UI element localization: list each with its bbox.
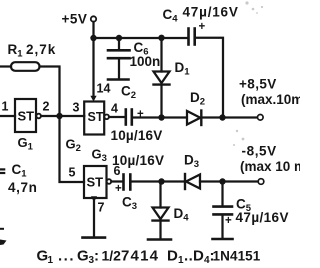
diode D2: [187, 111, 200, 125]
scan speckles: [233, 1, 263, 146]
svg-text:5: 5: [69, 166, 76, 180]
capacitor C5: [221, 182, 223, 206]
svg-text:14: 14: [97, 82, 111, 96]
svg-text:+8,5V: +8,5V: [239, 77, 277, 92]
svg-text:4,7n: 4,7n: [8, 180, 37, 195]
schmitt inverter G1: [15, 99, 36, 132]
schmitt inverter G2: [84, 102, 104, 135]
svg-text:R12,7k: R12,7k: [8, 42, 57, 60]
svg-text:+: +: [137, 109, 144, 121]
smudge bottom-left corner: [0, 240, 7, 246]
node junction G1 out: [56, 113, 62, 119]
node B junction: [158, 178, 164, 184]
schmitt inverter G3: [84, 166, 107, 198]
wire +5V rail: [94, 37, 189, 39]
wire G1 output to G2 input: [41, 115, 84, 117]
wire R1 left lead: [0, 65, 11, 67]
G2 output bubble: [104, 115, 109, 120]
svg-text:100n: 100n: [130, 54, 161, 69]
svg-text:4: 4: [111, 102, 118, 116]
svg-text:47µ/16V: 47µ/16V: [236, 210, 289, 225]
svg-text:7: 7: [98, 201, 105, 215]
node D1 top tap: [158, 35, 164, 41]
svg-text:+: +: [199, 21, 206, 33]
ground C5: [213, 238, 233, 241]
diode D1: [160, 38, 162, 72]
-8.5V output terminal: [258, 179, 264, 185]
svg-text:+: +: [115, 183, 122, 195]
G1 output bubble: [36, 114, 41, 119]
pin 7 arrowhead: [91, 196, 97, 202]
wire D2 to +8.5V node: [201, 116, 222, 118]
svg-text:ST: ST: [87, 175, 104, 190]
pin 7 wire to ground: [93, 198, 95, 237]
capacitor C3: [122, 175, 125, 190]
diode D4: [159, 182, 161, 208]
capacitor C2: [125, 110, 128, 125]
node -8.5V junction: [219, 178, 225, 184]
node +8.5V junction: [219, 114, 225, 120]
svg-text:+: +: [225, 215, 232, 227]
wire to -8.5V terminal: [223, 180, 259, 182]
svg-text:(max.10m: (max.10m: [241, 92, 300, 107]
svg-text:3: 3: [73, 101, 80, 115]
svg-text:1: 1: [2, 100, 9, 114]
resistor R1: [11, 62, 40, 71]
node A junction: [158, 114, 164, 120]
wire to +8.5V terminal: [223, 116, 257, 118]
svg-text:ST: ST: [18, 109, 35, 124]
svg-text:ST: ST: [88, 110, 104, 124]
ground C6: [108, 78, 129, 81]
capacitor C1 (cut off at edge): [0, 168, 4, 170]
svg-text:47µ/16V: 47µ/16V: [183, 5, 239, 20]
capacitor C4: [187, 29, 190, 45]
G3 output bubble: [107, 179, 112, 184]
wire G2 output to C2: [109, 116, 125, 118]
node C6 tap: [116, 35, 122, 41]
capacitor C6: [118, 38, 120, 50]
+5V supply terminal: [91, 16, 96, 21]
wire D3 to -8.5V node: [200, 180, 223, 182]
svg-text:-8,5V: -8,5V: [242, 144, 277, 159]
wire G1 input: [0, 115, 15, 117]
svg-text:10µ/16V: 10µ/16V: [111, 128, 163, 143]
+8.5V output terminal: [258, 115, 264, 121]
pin 14 wire into G2: [92, 38, 94, 97]
wire vertical bus down to G3 input: [60, 116, 85, 182]
diode D3: [184, 174, 186, 189]
svg-text:6: 6: [114, 164, 121, 178]
wire G3 output to C3: [111, 180, 122, 182]
svg-text:+5V: +5V: [62, 12, 88, 27]
edge mark: [0, 228, 3, 230]
wire C3 to node B: [131, 180, 185, 182]
pin 14 arrowhead: [90, 96, 96, 102]
svg-text:2: 2: [43, 100, 50, 114]
wire C2 to node A: [133, 116, 187, 118]
node +5V rail: [90, 35, 96, 41]
svg-text:(max 10 m: (max 10 m: [240, 159, 300, 174]
wire C4 to output node: [196, 38, 223, 118]
ground D4: [148, 238, 171, 241]
wire R1 right lead to vertical bus: [40, 67, 60, 117]
ground pin 7: [83, 236, 106, 239]
wire +5V down to rail: [92, 22, 94, 38]
